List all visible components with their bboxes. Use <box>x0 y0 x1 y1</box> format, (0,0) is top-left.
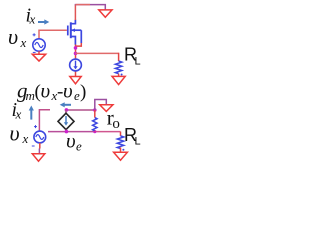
transistor M1 body stub with arrow <box>71 28 81 32</box>
label RL (top) <box>124 45 141 68</box>
wire node e rail (bottom) <box>48 131 121 133</box>
node e junction dot (ro bottom) <box>93 130 96 133</box>
svg-text:m: m <box>26 88 35 103</box>
resistor RL (top) <box>115 61 121 74</box>
svg-text:x: x <box>20 35 27 50</box>
label ix (top test current) <box>26 5 36 27</box>
current arrow ix (bottom, pointing up) <box>29 106 34 120</box>
label ix (bottom test current) <box>12 99 22 122</box>
svg-text:L: L <box>135 56 141 68</box>
label ve (node e voltage) <box>66 129 82 154</box>
svg-text:L: L <box>135 136 141 148</box>
label vx (top source value) <box>8 24 27 50</box>
label ro <box>107 106 120 132</box>
ground at top right (bottom model) <box>100 105 113 112</box>
node e junction dot (diamond bottom) <box>65 130 69 134</box>
transistor M1 channel bar <box>70 22 72 38</box>
wire top rail to ground <box>75 5 106 10</box>
minus mark of vx (top) <box>33 51 36 53</box>
node ro top junction dot <box>93 108 97 112</box>
svg-text:υ: υ <box>8 24 18 49</box>
label gm(vx-ve) (dependent source value) <box>17 79 86 104</box>
resistor ro <box>93 110 97 132</box>
plus mark of vx (bottom) <box>34 125 37 128</box>
transistor M1 drain stub <box>71 20 76 24</box>
voltage source vx (top) <box>33 39 45 51</box>
svg-text:x: x <box>15 107 22 122</box>
ground under RL (bottom) <box>114 152 128 160</box>
wire vx+ to gate <box>39 30 67 38</box>
ground under current source <box>70 77 81 84</box>
node source junction dot <box>74 46 78 55</box>
ground under vx (bottom) <box>32 154 45 161</box>
resistor RL (bottom) <box>117 136 123 149</box>
node diamond top junction dot <box>65 108 69 112</box>
svg-text:x: x <box>22 131 29 146</box>
svg-text:υ: υ <box>10 121 20 146</box>
wire drain to top rail <box>74 5 76 20</box>
svg-text:υ: υ <box>63 79 73 103</box>
minus mark of vx (bottom) <box>32 145 35 147</box>
svg-text:υ: υ <box>66 129 76 153</box>
wire node e to RL (bottom) corner <box>120 132 122 136</box>
wire top rail (drain node, bottom model) <box>65 109 95 111</box>
label vx (bottom source value) <box>10 121 29 147</box>
current arrow ix (top, pointing right) <box>38 19 49 24</box>
wire RL to ground (top) <box>119 74 123 77</box>
current arrow into dependent source (pointing left) <box>60 102 71 107</box>
wire source down to node <box>75 45 77 60</box>
label RL (bottom) <box>124 125 141 148</box>
wire rail to ground (bottom model) <box>95 100 107 111</box>
ground under RL (top) <box>112 76 125 84</box>
wire vx- to ground (bottom) <box>38 143 40 154</box>
wire vx- to ground <box>38 51 40 54</box>
dependent current source gm(vx-ve) diamond <box>58 113 74 129</box>
svg-text:x: x <box>29 12 36 27</box>
dependent source stub bottom <box>65 130 67 132</box>
svg-text:e: e <box>76 139 82 154</box>
wire vx+ stub (gate node, bottom) <box>39 110 50 131</box>
svg-text:): ) <box>80 82 86 103</box>
voltage source vx (bottom) <box>34 131 46 143</box>
ground at top right (drain) <box>99 10 112 17</box>
wire node to RL (top) <box>76 53 119 61</box>
ground under vx (top) <box>32 54 45 61</box>
transistor M1 source stub <box>71 37 76 45</box>
dependent source gm stub top <box>65 110 67 113</box>
svg-text:υ: υ <box>41 79 51 103</box>
svg-text:o: o <box>112 116 120 132</box>
transistor M1 gate bar <box>67 26 69 36</box>
plus mark of vx (top) <box>33 33 36 36</box>
wire body tied to source <box>75 30 81 46</box>
current source I1 (bias) <box>70 59 82 76</box>
wire RL to ground (bottom) <box>121 147 125 152</box>
